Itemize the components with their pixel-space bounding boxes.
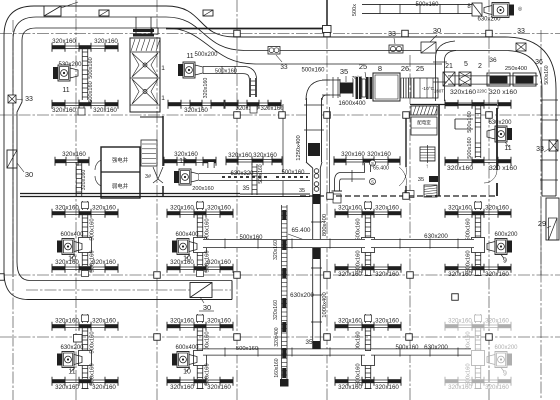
svg-text:500x160: 500x160 — [205, 218, 211, 240]
svg-text:160x160: 160x160 — [274, 358, 280, 377]
svg-text:1: 1 — [161, 95, 165, 102]
svg-text:320x160: 320x160 — [485, 205, 509, 212]
svg-text:10: 10 — [179, 158, 187, 165]
svg-text:500x200: 500x200 — [194, 52, 218, 58]
svg-text:11: 11 — [186, 53, 193, 60]
svg-text:320x160: 320x160 — [448, 271, 472, 278]
svg-text:35: 35 — [418, 177, 424, 183]
svg-text:320x160: 320x160 — [174, 151, 198, 158]
svg-text:320x160: 320x160 — [55, 259, 79, 266]
svg-text:33: 33 — [25, 96, 33, 103]
svg-text:500x160: 500x160 — [258, 164, 264, 183]
svg-text:630x200: 630x200 — [488, 120, 512, 126]
svg-text:320x160: 320x160 — [485, 318, 509, 325]
svg-text:320x160: 320x160 — [55, 318, 79, 325]
svg-text:强电井: 强电井 — [112, 156, 129, 164]
svg-text:500x160: 500x160 — [395, 345, 419, 351]
svg-text:500x160: 500x160 — [466, 218, 472, 240]
svg-text:320x160: 320x160 — [203, 78, 209, 99]
svg-text:320 x160: 320 x160 — [489, 89, 517, 96]
svg-text:25: 25 — [359, 62, 367, 71]
svg-text:500x160: 500x160 — [415, 2, 439, 8]
svg-text:30: 30 — [25, 170, 33, 179]
svg-text:320x160: 320x160 — [52, 107, 76, 114]
svg-text:320x160: 320x160 — [485, 271, 509, 278]
svg-text:320x160: 320x160 — [170, 384, 194, 391]
svg-text:65.400: 65.400 — [292, 227, 311, 234]
svg-text:500x160: 500x160 — [281, 170, 305, 176]
svg-text:320x160: 320x160 — [338, 384, 362, 391]
svg-text:25: 25 — [416, 64, 424, 73]
svg-text:30: 30 — [433, 26, 441, 35]
svg-text:320x160: 320x160 — [170, 318, 194, 325]
svg-text:600x400: 600x400 — [175, 345, 199, 351]
svg-text:320x160: 320x160 — [447, 165, 473, 172]
svg-text:320x160: 320x160 — [207, 205, 231, 212]
svg-text:10: 10 — [183, 369, 191, 376]
svg-text:65.400: 65.400 — [373, 166, 389, 172]
svg-text:320x160: 320x160 — [253, 152, 277, 159]
svg-text:320x160: 320x160 — [207, 318, 231, 325]
svg-text:500x160: 500x160 — [215, 69, 237, 75]
svg-text:3#: 3# — [145, 174, 151, 180]
svg-text:320x160: 320x160 — [338, 318, 362, 325]
svg-text:35: 35 — [243, 185, 250, 192]
svg-text:320x160: 320x160 — [52, 38, 76, 45]
svg-text:280T: 280T — [434, 89, 444, 94]
svg-text:320x160: 320x160 — [228, 152, 252, 159]
svg-text:-10°C: -10°C — [422, 86, 435, 92]
svg-text:35: 35 — [340, 67, 348, 76]
svg-text:220C: 220C — [477, 89, 487, 94]
svg-text:500x160: 500x160 — [88, 57, 94, 78]
svg-text:320x160: 320x160 — [485, 384, 509, 391]
svg-text:35: 35 — [299, 188, 305, 194]
svg-text:320x160: 320x160 — [273, 300, 279, 320]
svg-text:8: 8 — [378, 64, 382, 73]
svg-text:200x160: 200x160 — [192, 186, 213, 192]
svg-text:600x400: 600x400 — [175, 232, 199, 238]
svg-text:500x160: 500x160 — [356, 218, 362, 240]
svg-text:500x160: 500x160 — [467, 137, 473, 158]
svg-text:36: 36 — [535, 59, 543, 66]
svg-text:30: 30 — [203, 303, 211, 312]
svg-text:500x160: 500x160 — [90, 218, 96, 240]
svg-text:2: 2 — [478, 63, 482, 70]
svg-text:320x160: 320x160 — [92, 384, 116, 391]
svg-text:320x160: 320x160 — [94, 38, 118, 45]
svg-text:600x200: 600x200 — [494, 345, 518, 351]
svg-text:26: 26 — [401, 64, 409, 73]
svg-text:500x160: 500x160 — [88, 81, 94, 102]
svg-text:1600x400: 1600x400 — [338, 100, 366, 107]
svg-text:320x160: 320x160 — [207, 259, 231, 266]
svg-text:弱电井: 弱电井 — [112, 182, 129, 190]
svg-text:320x160: 320x160 — [93, 107, 117, 114]
svg-text:320x160: 320x160 — [338, 271, 362, 278]
svg-text:500x160: 500x160 — [236, 346, 258, 352]
svg-text:320x160: 320x160 — [55, 205, 79, 212]
svg-text:630x200: 630x200 — [424, 233, 448, 240]
svg-text:320x160: 320x160 — [170, 259, 194, 266]
svg-text:320x160: 320x160 — [92, 318, 116, 325]
svg-text:33: 33 — [388, 31, 396, 38]
svg-text:320x160: 320x160 — [55, 384, 79, 391]
svg-text:320x160: 320x160 — [92, 259, 116, 266]
svg-text:1: 1 — [161, 65, 165, 72]
svg-text:320 x160: 320 x160 — [489, 165, 517, 172]
svg-text:500x160: 500x160 — [90, 331, 96, 353]
svg-text:↑: ↑ — [426, 164, 429, 170]
svg-text:500x160: 500x160 — [544, 65, 550, 84]
svg-text:500x: 500x — [352, 4, 358, 16]
svg-text:800x400: 800x400 — [322, 214, 328, 236]
svg-text:320x160: 320x160 — [184, 107, 208, 114]
svg-text:320x160: 320x160 — [92, 205, 116, 212]
svg-text:11: 11 — [62, 87, 69, 94]
svg-text:320x160: 320x160 — [81, 170, 87, 191]
svg-text:S: S — [371, 180, 374, 185]
svg-text:320x160: 320x160 — [375, 205, 399, 212]
svg-text:320x160: 320x160 — [375, 384, 399, 391]
svg-text:21: 21 — [445, 63, 453, 70]
svg-text:500x160: 500x160 — [467, 111, 473, 132]
svg-text:630x200: 630x200 — [60, 345, 84, 351]
svg-text:33: 33 — [536, 146, 544, 153]
svg-text:600x200: 600x200 — [494, 232, 518, 238]
svg-text:630x320: 630x320 — [230, 171, 254, 177]
svg-text:29: 29 — [538, 219, 546, 228]
svg-text:1000x400: 1000x400 — [322, 292, 328, 317]
svg-text:5: 5 — [464, 61, 468, 68]
svg-text:36: 36 — [489, 57, 497, 64]
svg-text:320x160: 320x160 — [448, 318, 472, 325]
svg-text:250x400: 250x400 — [505, 66, 527, 72]
svg-text:320x400: 320x400 — [274, 327, 280, 346]
svg-text:320x160: 320x160 — [341, 151, 365, 158]
svg-text:320x160: 320x160 — [450, 89, 476, 96]
svg-text:500x160: 500x160 — [239, 235, 263, 241]
svg-text:320x160: 320x160 — [207, 384, 231, 391]
svg-text:320x160: 320x160 — [375, 271, 399, 278]
svg-text:◎: ◎ — [518, 6, 523, 12]
svg-text:11: 11 — [68, 369, 75, 376]
svg-text:320x160: 320x160 — [375, 318, 399, 325]
svg-text:320x160: 320x160 — [448, 384, 472, 391]
svg-text:1250x400: 1250x400 — [296, 135, 302, 160]
svg-text:320x160: 320x160 — [338, 205, 362, 212]
svg-text:35: 35 — [305, 339, 313, 346]
svg-text:320x160: 320x160 — [448, 205, 472, 212]
svg-text:33: 33 — [517, 28, 525, 35]
svg-text:630x200: 630x200 — [424, 344, 448, 351]
svg-text:630x200: 630x200 — [290, 292, 314, 299]
svg-text:500x160: 500x160 — [301, 68, 325, 74]
svg-text:320x160: 320x160 — [273, 240, 279, 260]
svg-text:33: 33 — [280, 64, 288, 71]
svg-text:320x160: 320x160 — [170, 205, 194, 212]
svg-text:600x400: 600x400 — [60, 232, 84, 238]
svg-text:配电室: 配电室 — [417, 119, 431, 126]
